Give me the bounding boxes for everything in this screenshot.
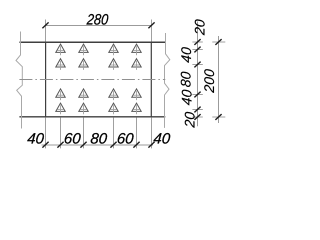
svg-text:40: 40 <box>178 89 194 106</box>
inner tick y=94.5 <box>194 92 200 98</box>
weld point row 4 col 4 <box>132 103 141 114</box>
bottom extension lines <box>45 117 47 148</box>
outer tick y=117.5 <box>215 114 221 120</box>
inner stub y=49.5 <box>192 49 202 51</box>
outer stub y=42 <box>212 41 225 43</box>
top dim extension line left <box>45 20 47 42</box>
bottom tick at 151.5 <box>148 142 154 148</box>
right inner dimension line <box>197 22 199 127</box>
inner stub y=64.5 <box>192 64 202 66</box>
bottom tick at 113.5 <box>110 142 116 148</box>
plate bottom edge <box>19 116 165 118</box>
top tick right <box>148 22 154 28</box>
inner tick y=49.5 <box>194 47 200 53</box>
svg-text:200: 200 <box>201 68 217 94</box>
outer stub y=117.5 <box>212 116 225 118</box>
weld point row 3 col 2 <box>79 89 88 100</box>
bottom tick at 136.5 <box>133 142 139 148</box>
weld point row 1 col 3 <box>109 44 118 55</box>
right outer dimension line 200 <box>218 36 220 123</box>
svg-text:80: 80 <box>178 71 194 88</box>
weld point row 4 col 1 <box>56 103 65 114</box>
weld point row 1 col 1 <box>56 44 65 55</box>
right break line <box>165 33 170 128</box>
top dim extension line right <box>151 20 153 42</box>
svg-text:60: 60 <box>63 130 82 147</box>
svg-text:40: 40 <box>178 46 194 63</box>
plate top edge <box>19 41 165 43</box>
weld point row 3 col 4 <box>132 89 141 100</box>
inner tick y=109.5 <box>194 107 200 113</box>
svg-text:40: 40 <box>27 130 46 147</box>
weld point row 3 col 1 <box>56 89 65 100</box>
weld point row 4 col 2 <box>79 103 88 114</box>
weld point row 2 col 2 <box>79 59 88 70</box>
weld point row 2 col 4 <box>132 59 141 70</box>
inner tick y=117.5 <box>194 114 200 120</box>
inner tick y=64.5 <box>194 62 200 68</box>
svg-text:20: 20 <box>182 111 198 129</box>
inner stub y=42 <box>192 41 202 43</box>
inner tick y=42 <box>194 39 200 45</box>
left break line <box>16 32 22 129</box>
inner stub y=94.5 <box>192 94 202 96</box>
svg-text:80: 80 <box>90 130 109 147</box>
bottom tick at 45.5 <box>42 142 48 148</box>
top dimension line 280 <box>46 25 152 27</box>
centerline dash-dot <box>19 79 165 81</box>
svg-text:20: 20 <box>192 19 208 37</box>
bottom tick at 60.5 <box>57 142 63 148</box>
weld point row 1 col 4 <box>132 44 141 55</box>
bottom dimension line <box>42 144 154 146</box>
svg-text:60: 60 <box>116 130 135 147</box>
weld point row 4 col 3 <box>109 103 118 114</box>
bottom tick at 83.5 <box>80 142 86 148</box>
top tick left <box>42 22 48 28</box>
inner stub y=109.5 <box>192 109 202 111</box>
weld point row 3 col 3 <box>109 89 118 100</box>
weld point row 2 col 1 <box>56 59 65 70</box>
outer tick y=42 <box>215 39 221 45</box>
inner stub y=117.5 <box>192 116 202 118</box>
weld point row 1 col 2 <box>79 44 88 55</box>
weld field left edge <box>45 42 47 117</box>
svg-text:40: 40 <box>153 130 172 147</box>
weld point row 2 col 3 <box>109 59 118 70</box>
weld field right edge <box>150 42 152 117</box>
svg-text:280: 280 <box>85 12 109 29</box>
